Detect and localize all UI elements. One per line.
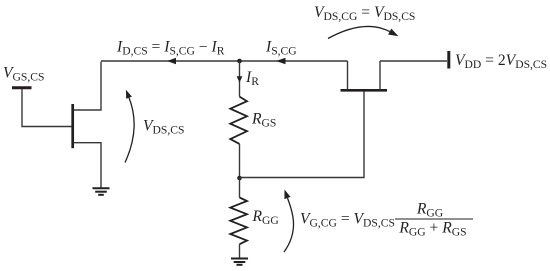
wire node B to R_GG [239, 178, 241, 198]
fraction R_GG / (R_GG + R_GS) [395, 201, 473, 239]
wire R_GS to node B [239, 144, 241, 178]
current arrow I_D,CS [167, 58, 176, 65]
arc arrow V_DS,CG (top) [328, 26, 399, 38]
ground R_GG [231, 259, 248, 265]
wire gate Q1 [22, 89, 72, 127]
node A (top junction) [237, 59, 242, 64]
wire node B to gate Q2 [240, 92, 365, 178]
arc arrow V_DS,CS [125, 90, 134, 163]
ground Q1 source [93, 188, 110, 195]
resistor R_GS [230, 97, 247, 144]
current arrow I_S,CG [276, 58, 286, 65]
current arrow I_R [237, 61, 243, 97]
resistor R_GG [230, 198, 247, 245]
terminal VGS,CS bar [12, 86, 32, 89]
transistor Q2 (common gate) [341, 61, 388, 90]
wire R_GG to ground [239, 244, 241, 258]
arc arrow V_G,CG [284, 190, 294, 253]
terminal VDD bar [447, 51, 450, 69]
node B (divider junction) [237, 176, 242, 181]
transistor Q1 (common source) [73, 62, 101, 188]
wire top rail (Q1 drain to Q2 source) [101, 60, 348, 62]
wire Q2 drain to VDD [380, 60, 447, 62]
